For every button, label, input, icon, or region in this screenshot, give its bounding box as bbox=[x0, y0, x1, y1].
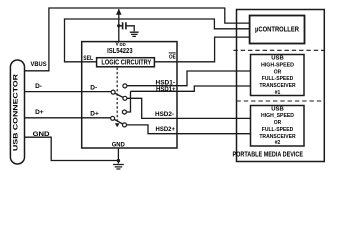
svg-text:ISL54223: ISL54223 bbox=[107, 46, 133, 55]
svg-text:USB: USB bbox=[271, 106, 284, 112]
svg-text:PORTABLE MEDIA DEVICE: PORTABLE MEDIA DEVICE bbox=[233, 150, 304, 159]
svg-text:OR: OR bbox=[274, 69, 282, 75]
svg-text:D-: D- bbox=[90, 84, 97, 91]
svg-text:GND: GND bbox=[112, 141, 125, 148]
svg-text:HSD2-: HSD2- bbox=[155, 112, 174, 118]
svg-text:HIGH-SPEED: HIGH-SPEED bbox=[261, 63, 294, 69]
svg-text:HSD2+: HSD2+ bbox=[156, 127, 176, 133]
svg-text:GND: GND bbox=[33, 131, 50, 138]
svg-text:HIGH_SPEED: HIGH_SPEED bbox=[261, 113, 294, 119]
svg-text:D-: D- bbox=[35, 83, 42, 90]
svg-text:USB CONNECTOR: USB CONNECTOR bbox=[14, 73, 20, 151]
svg-text:FULL-SPEED: FULL-SPEED bbox=[262, 76, 294, 82]
svg-text:VBUS: VBUS bbox=[31, 61, 48, 68]
svg-text:SEL: SEL bbox=[83, 55, 93, 62]
svg-text:OE: OE bbox=[169, 54, 176, 60]
svg-text:#1: #1 bbox=[275, 90, 281, 96]
svg-text:HSD1-: HSD1- bbox=[156, 81, 176, 87]
svg-text:#2: #2 bbox=[275, 140, 281, 146]
svg-text:TRANSCEIVER: TRANSCEIVER bbox=[259, 83, 296, 89]
svg-text:OR: OR bbox=[274, 120, 282, 126]
svg-text:D+: D+ bbox=[90, 110, 99, 117]
svg-text:LOGIC CIRCUITRY: LOGIC CIRCUITRY bbox=[101, 60, 151, 67]
svg-text:HSD1+: HSD1+ bbox=[156, 87, 176, 93]
svg-text:µCONTROLLER: µCONTROLLER bbox=[255, 25, 299, 34]
svg-text:FULL-SPEED: FULL-SPEED bbox=[262, 127, 294, 133]
svg-text:D+: D+ bbox=[35, 109, 44, 116]
svg-text:TRANSCEIVER: TRANSCEIVER bbox=[259, 134, 296, 140]
svg-text:USB: USB bbox=[271, 56, 284, 62]
